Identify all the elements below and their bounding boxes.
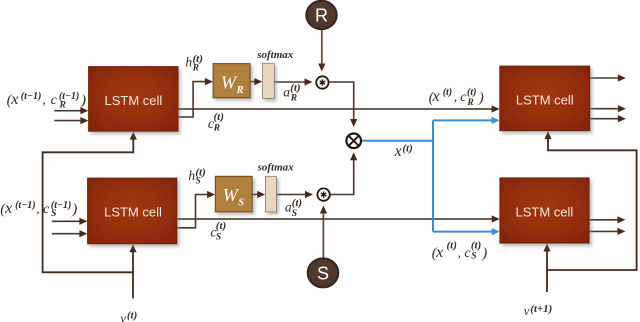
svg-text:R: R xyxy=(192,63,199,73)
label a_S(t) xyxy=(285,197,302,219)
svg-text:W: W xyxy=(223,185,240,205)
label v(t) xyxy=(120,309,137,322)
wire v(t) feedback branch to LSTM top-left xyxy=(43,132,137,273)
label (x(t-1), cR(t-1)) xyxy=(7,91,86,111)
svg-text:(t): (t) xyxy=(447,240,457,252)
svg-text:x: x xyxy=(432,88,440,105)
svg-text:x: x xyxy=(4,200,12,217)
svg-text:LSTM cell: LSTM cell xyxy=(105,93,163,108)
svg-text:S: S xyxy=(216,233,221,243)
svg-text:(t+1): (t+1) xyxy=(530,303,552,315)
LSTM cell bottom-right xyxy=(500,178,589,243)
svg-text:R: R xyxy=(213,124,220,134)
LSTM cell top-left xyxy=(89,67,178,132)
wire h_S jog to W_S xyxy=(177,191,215,228)
svg-text:S: S xyxy=(51,209,56,219)
wire softmax bar R to circled asterisk xyxy=(274,78,312,85)
svg-text:(t): (t) xyxy=(292,197,302,209)
wire input arrow 1 into LSTM top-left xyxy=(54,107,88,114)
wire output arrow 1 of LSTM bottom-right xyxy=(589,216,625,223)
svg-text:c: c xyxy=(43,202,50,217)
svg-text:softmax: softmax xyxy=(257,161,295,173)
wire softmax bar S to circled asterisk xyxy=(277,191,314,198)
svg-text:x: x xyxy=(10,91,18,108)
wire output arrow 2 of LSTM bottom-right xyxy=(589,228,625,235)
wire input arrow 2 into LSTM top-left xyxy=(54,117,88,124)
circled asterisk R xyxy=(316,76,328,88)
wire S stem up to circled asterisk xyxy=(320,206,327,259)
svg-text:LSTM cell: LSTM cell xyxy=(516,92,574,107)
svg-text:): ) xyxy=(481,246,487,262)
wire input arrow 2 into LSTM bottom-left xyxy=(52,230,88,237)
wire v(t+1) riser into LSTM bottom-right xyxy=(543,244,550,293)
svg-text:LSTM cell: LSTM cell xyxy=(516,204,574,219)
svg-text:,: , xyxy=(454,89,457,104)
svg-text:S: S xyxy=(292,209,297,219)
node R circle xyxy=(306,1,336,29)
svg-text:(t): (t) xyxy=(467,87,476,98)
label (x(t), cR(t)) xyxy=(429,87,484,108)
label x(t) mid xyxy=(394,142,413,160)
wire W_S to softmax bar xyxy=(252,191,265,198)
wire x(t) blue from otimes xyxy=(362,117,500,235)
wire R stem down to circled asterisk xyxy=(318,29,325,72)
weight box W_R xyxy=(213,64,250,98)
wire c_R long line xyxy=(178,105,500,112)
svg-text:(t): (t) xyxy=(290,82,300,94)
svg-text:S: S xyxy=(196,176,201,186)
svg-text:): ) xyxy=(71,202,77,218)
svg-text:S: S xyxy=(317,264,329,284)
label (x(t), cS(t)) xyxy=(432,240,487,262)
svg-text:): ) xyxy=(80,93,86,109)
node S circle xyxy=(308,258,339,287)
svg-text:,: , xyxy=(36,201,39,216)
LSTM cell bottom-left xyxy=(88,178,177,244)
softmax bar R xyxy=(263,63,275,98)
otimes multiply node xyxy=(346,134,361,149)
svg-text:R: R xyxy=(59,101,66,111)
svg-text:R: R xyxy=(466,98,473,108)
svg-text:softmax: softmax xyxy=(256,49,294,61)
svg-text:v: v xyxy=(524,304,530,318)
svg-text:h: h xyxy=(188,168,195,183)
svg-text:(t): (t) xyxy=(402,142,412,154)
svg-text:W: W xyxy=(221,72,238,92)
svg-text:a: a xyxy=(283,85,290,100)
circled asterisk S xyxy=(317,188,329,200)
svg-text:,: , xyxy=(458,245,461,260)
svg-text:v: v xyxy=(120,312,126,322)
label a_R(t) xyxy=(283,82,300,104)
wire h_R jog to W_R xyxy=(178,78,213,117)
svg-text:(t): (t) xyxy=(214,111,224,123)
svg-text:R: R xyxy=(236,85,244,96)
wire v(t+1) feedback branch to LSTM top-right xyxy=(544,131,636,270)
svg-text:x: x xyxy=(435,244,443,261)
wire output arrow 1 of LSTM top-right xyxy=(590,74,626,81)
svg-text:(t): (t) xyxy=(443,87,452,98)
svg-text:x: x xyxy=(394,143,402,160)
wire v(t) riser into LSTM bottom-left xyxy=(129,244,136,298)
svg-text:R: R xyxy=(315,6,328,26)
svg-text:): ) xyxy=(478,90,484,106)
svg-text:S: S xyxy=(471,251,476,261)
wire circled asterisk S to otimes xyxy=(331,152,358,194)
svg-text:,: , xyxy=(43,92,46,107)
wire input arrow 1 into LSTM bottom-left xyxy=(52,218,88,225)
label c_S(t) xyxy=(210,220,226,243)
svg-text:(t−1): (t−1) xyxy=(21,91,42,102)
svg-text:(t): (t) xyxy=(127,309,137,321)
svg-text:(t−1): (t−1) xyxy=(15,200,35,211)
wire c_S long line xyxy=(177,215,500,222)
wire circled asterisk R to otimes xyxy=(329,82,357,127)
label h_R(t) xyxy=(185,53,202,74)
LSTM cell top-right xyxy=(500,66,590,131)
softmax bar S xyxy=(265,176,276,212)
wire output arrow 3 of LSTM top-right xyxy=(590,115,626,122)
wire W_R to softmax bar xyxy=(250,78,262,85)
label v(t+1) xyxy=(524,303,553,318)
weight box W_S xyxy=(215,176,252,212)
label h_S(t) xyxy=(188,166,205,186)
svg-text:(t): (t) xyxy=(216,220,226,232)
svg-text:LSTM cell: LSTM cell xyxy=(104,205,162,220)
svg-text:(t): (t) xyxy=(471,240,481,252)
svg-text:R: R xyxy=(290,94,297,104)
svg-text:h: h xyxy=(185,55,192,70)
label c_R(t) xyxy=(208,111,224,134)
svg-text:c: c xyxy=(51,93,58,108)
svg-text:S: S xyxy=(238,197,244,208)
wire output arrow 2 of LSTM top-right xyxy=(590,105,626,112)
label (x(t-1), cS(t-1)) xyxy=(0,200,77,219)
